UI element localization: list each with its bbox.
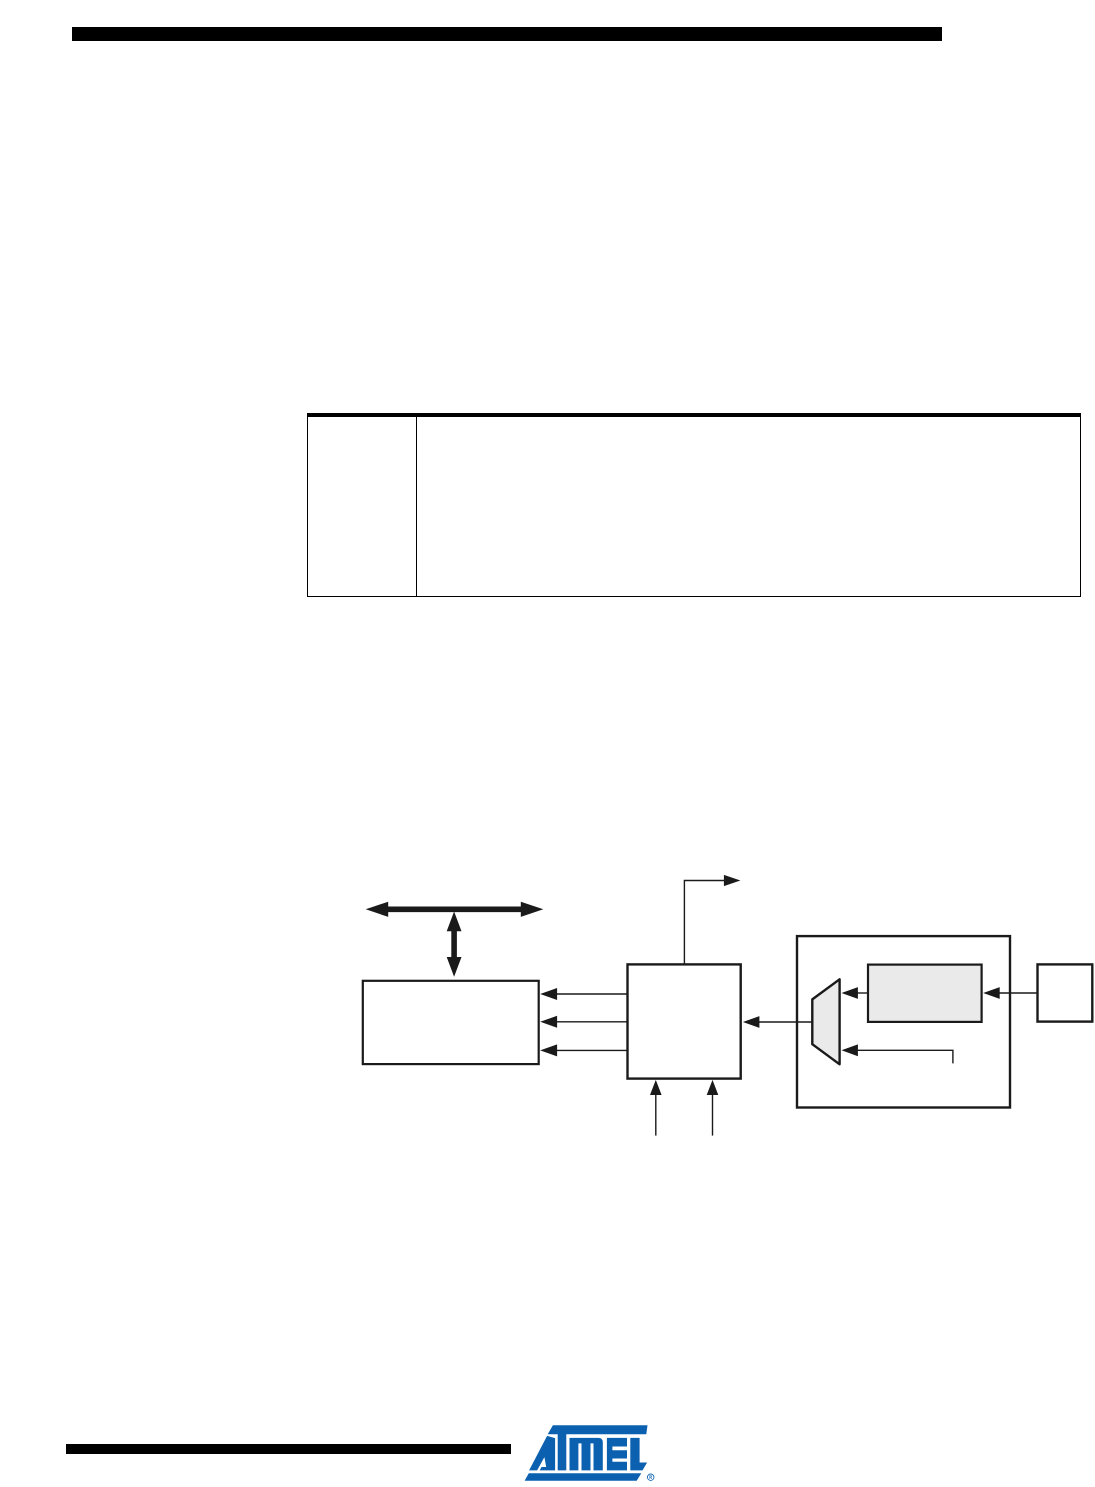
logo letter M <box>569 1438 602 1471</box>
wire: bottom input arrow 2 into timer block <box>707 1080 719 1136</box>
wire: timer to register arrow 1 <box>540 988 627 1000</box>
logo letter E <box>606 1438 626 1471</box>
Atmel logo <box>524 1425 655 1483</box>
wire: oscillator to prescaler arrow <box>983 987 1037 999</box>
logo registered trademark <box>647 1474 654 1481</box>
wire: output from timer block top with right arrow <box>684 875 740 965</box>
mux: clock select multiplexer <box>812 979 839 1064</box>
block: prescaler group (outer right box) <box>797 936 1010 1107</box>
note table column divider <box>416 417 417 596</box>
bus: thick horizontal double arrow (data bus) <box>366 902 544 917</box>
logo bottom underline bar <box>524 1473 641 1481</box>
logo top bar with T stem <box>547 1425 647 1470</box>
block: oscillator (small right box) <box>1038 964 1093 1021</box>
wire: timer to register arrow 3 <box>540 1044 627 1056</box>
wire: second mux input with stub <box>842 1044 953 1063</box>
block: prescaler (gray box) <box>868 965 982 1022</box>
footer rule bar <box>66 1444 511 1454</box>
wire: bottom input arrow 1 into timer block <box>650 1080 662 1136</box>
block: timer/counter block (middle box) <box>628 964 741 1078</box>
header rule bar <box>72 27 942 41</box>
block: register block (left box) <box>363 981 539 1064</box>
wire: mux output to timer block <box>743 1016 812 1028</box>
wire: timer to register arrow 2 <box>540 1016 627 1028</box>
bus: thick vertical double arrow to register block <box>447 912 462 977</box>
logo letter A <box>529 1436 555 1471</box>
wire: prescaler output to mux <box>842 987 869 999</box>
note table frame <box>307 413 1081 597</box>
logo letter L <box>630 1438 647 1471</box>
